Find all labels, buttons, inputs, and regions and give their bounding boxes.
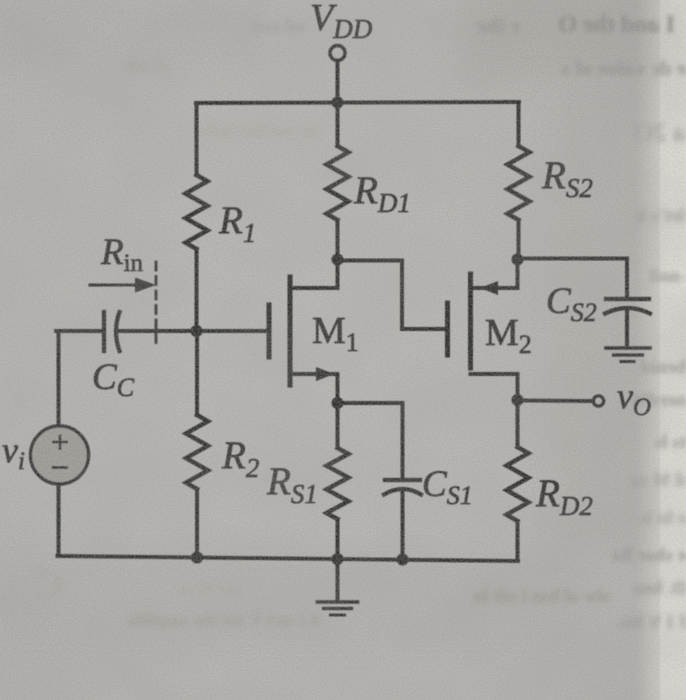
node: bias node R1/R2/gate <box>191 325 203 337</box>
transistor M1 <box>269 261 338 401</box>
wire: RS2 node to CS2 <box>518 259 628 300</box>
vo terminal <box>593 396 603 406</box>
wire: source node to CS1 <box>338 403 403 480</box>
node: CS1 on bottom rail <box>397 554 409 566</box>
label RD2 <box>535 472 593 521</box>
wire: CS2 to ground <box>625 308 629 347</box>
wire: R2 lower lead <box>195 489 199 557</box>
VDD terminal <box>330 46 345 103</box>
soft washes <box>460 0 686 80</box>
label CS2 <box>546 281 597 327</box>
wire: RS2 lower lead <box>517 220 521 260</box>
wire: ground stub <box>336 559 340 601</box>
capacitor CS2 <box>605 299 650 314</box>
label RS1 <box>266 460 318 509</box>
label M1 <box>312 310 359 357</box>
Rin arrow <box>90 278 156 293</box>
transistor M2 <box>448 260 518 401</box>
wire: CC to M1 gate <box>116 329 269 333</box>
label RD1 <box>353 169 411 218</box>
wire: R1 upper lead <box>195 103 199 175</box>
node: M1 drain / RD1 <box>332 254 344 266</box>
source vi <box>31 331 89 556</box>
resistor RS2 <box>508 146 530 220</box>
capacitor CS1 <box>384 480 421 495</box>
label RS2 <box>541 154 593 203</box>
resistor R1 <box>186 175 208 249</box>
label VDD <box>310 0 373 44</box>
wire: RD2 upper lead <box>516 400 520 447</box>
wire: vo lead <box>518 399 594 403</box>
wire: M1 drain to M2 gate <box>338 261 448 330</box>
node: M2 source / RS2 / CS2 <box>512 254 524 266</box>
node: VDD junction on top rail <box>332 97 344 109</box>
right page-edge light strip <box>636 0 686 700</box>
wire: RS1 upper lead <box>336 403 340 448</box>
wire: RD2 lower lead <box>516 521 520 561</box>
wire: bottom ground rail <box>58 556 519 561</box>
wire: input signal line <box>56 329 104 333</box>
wire: top supply rail <box>196 102 519 103</box>
resistor RD2 <box>507 447 529 521</box>
wire: R2 upper lead <box>195 331 199 415</box>
capacitor CC <box>104 312 120 351</box>
label Rin <box>100 232 144 277</box>
resistor RS1 <box>327 448 349 519</box>
label M2 <box>485 312 532 359</box>
bleed-through text (show-through from reverse page, mirrored & blurred) <box>525 12 675 39</box>
node: RS1/ground on bottom rail <box>332 553 344 565</box>
node: R2 on bottom rail <box>191 552 203 564</box>
ground (main) <box>318 602 358 615</box>
node: M1 source / RS1 / CS1 <box>332 397 344 409</box>
wire: RD1 upper lead <box>336 102 340 146</box>
label CS1 <box>422 464 473 510</box>
Rin dashed reference line <box>155 262 158 348</box>
wire: RS2 upper lead <box>517 102 521 146</box>
label vo <box>617 376 651 421</box>
label R2 <box>221 434 259 483</box>
resistor RD1 <box>327 146 349 220</box>
ground (CS2) <box>606 348 650 362</box>
wire: CS1 lower lead <box>401 489 405 560</box>
wire: R1 lower lead <box>195 249 199 331</box>
wire: RS1 lower lead <box>336 519 340 559</box>
label CC <box>92 357 135 402</box>
resistor R2 <box>186 415 208 489</box>
wire: RD1 lower lead <box>336 220 340 260</box>
node: M2 drain / RD2 / vo <box>512 394 524 406</box>
label R1 <box>218 199 256 248</box>
label vi <box>2 430 25 475</box>
